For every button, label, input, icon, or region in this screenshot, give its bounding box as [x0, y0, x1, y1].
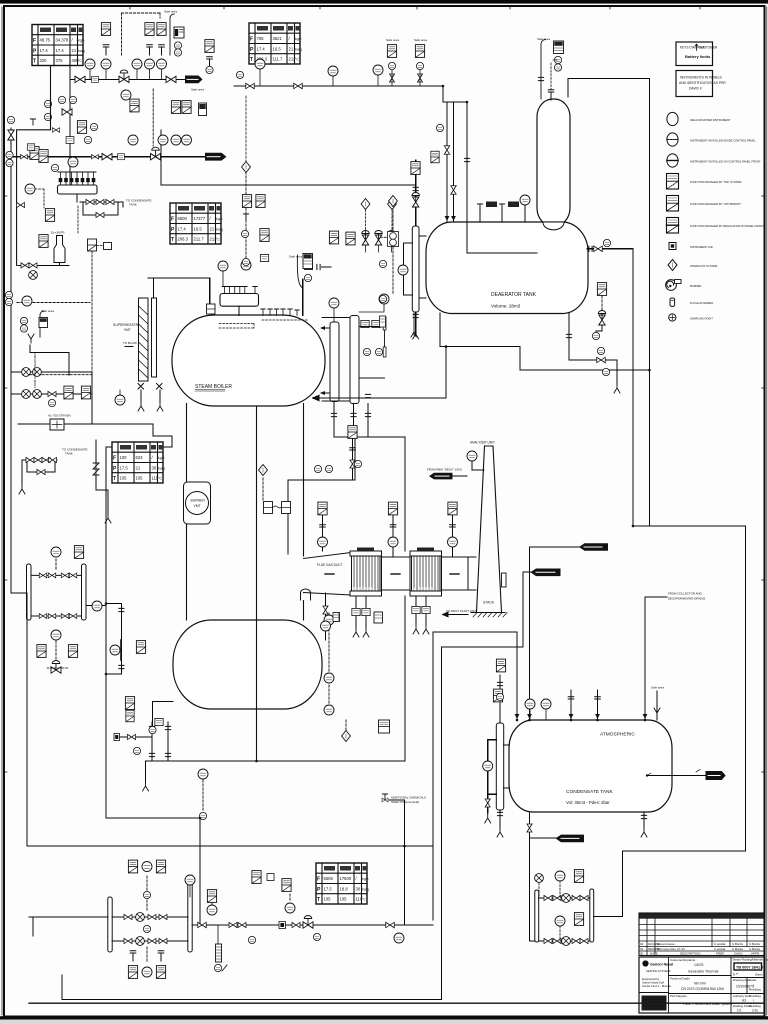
drum internal feed pipe (dashed) — [219, 324, 254, 329]
pipe: boiler feedwater inlet — [313, 347, 446, 398]
svg-text:17.4: 17.4 — [178, 226, 187, 231]
svg-text:F: F — [113, 456, 116, 462]
stack damper — [502, 573, 507, 587]
water treatment pumps 2x2 — [22, 368, 31, 377]
svg-text:barg: barg — [295, 47, 302, 51]
svg-text:Vol: 35m3 - Pdes: 2bar: Vol: 35m3 - Pdes: 2bar — [566, 800, 610, 805]
svg-text:100: 100 — [120, 455, 128, 460]
svg-text:00: 00 — [640, 952, 644, 956]
deaerator feed valves — [444, 146, 449, 155]
connector: sample header 2 — [531, 569, 561, 577]
pipe: header blowoff loop — [77, 194, 123, 215]
nozzle dome on wall — [301, 589, 311, 600]
pipe: manifold riser — [238, 306, 240, 315]
spray control cluster right of drum — [329, 231, 338, 244]
svg-text:Steam Routing/Material Doc.Num: Steam Routing/Material Doc.Number — [733, 958, 768, 962]
circles above line A — [85, 59, 95, 69]
steam drum (upper) — [172, 315, 325, 406]
svg-text:16.5: 16.5 — [194, 226, 203, 231]
svg-text:F: F — [171, 217, 174, 223]
condensate level bridle — [496, 723, 503, 810]
svg-text:barg: barg — [362, 887, 369, 891]
legend symbol: field mounted instrument — [667, 112, 731, 125]
pipe: sample labels stubs — [523, 547, 579, 720]
instruments above line B — [130, 99, 139, 112]
svg-text:T: T — [113, 476, 116, 482]
svg-text:BURNER: BURNER — [690, 284, 701, 288]
value table T3 — [170, 203, 223, 244]
pipe: bottom-left pump suction — [29, 917, 108, 936]
pipe: drum level column drains — [334, 402, 405, 762]
analyzer circle — [467, 451, 477, 461]
svg-text:CN 2473 GV30RM BW 12t/h: CN 2473 GV30RM BW 12t/h — [681, 987, 724, 991]
left mid circle chain — [198, 769, 208, 779]
instrument squares row top — [101, 23, 110, 36]
svg-text:105: 105 — [324, 897, 332, 902]
svg-text:APPR: APPR — [751, 952, 760, 956]
legend symbol: sampling point — [669, 314, 714, 321]
pipe: treated water line — [18, 424, 172, 447]
svg-text:AL-750 STRYBN: AL-750 STRYBN — [48, 414, 71, 418]
svg-text:TO PAINT PLANT 10KG: TO PAINT PLANT 10KG — [446, 609, 478, 613]
pipe: steam to deaerator — [234, 86, 537, 253]
svg-text:17.4: 17.4 — [56, 48, 65, 53]
svg-text:VMT: VMT — [194, 504, 201, 508]
misc cluster upper-left — [58, 96, 65, 103]
svg-text:first issue Rev. FL 03: first issue Rev. FL 03 — [657, 947, 685, 951]
drum top nozzles — [263, 309, 297, 316]
dashed: line F controller — [152, 89, 154, 146]
right duct — [442, 557, 469, 590]
connector: sample header 1 — [579, 543, 608, 551]
svg-text:375: 375 — [56, 58, 64, 63]
svg-text:48.75: 48.75 — [40, 38, 51, 43]
svg-text:Generator Thermal: Generator Thermal — [688, 970, 718, 974]
lower drum — [173, 620, 322, 709]
svg-text:STACK: STACK — [483, 601, 495, 605]
pipe: wall blowdown jog — [288, 437, 355, 554]
legend symbol: instrument inside control panel — [667, 133, 756, 146]
small marks near tank outlet — [647, 770, 700, 776]
svg-text:30: 30 — [356, 886, 361, 891]
svg-text:°C: °C — [78, 59, 82, 63]
project cells — [670, 958, 732, 1006]
ground hatch under stack — [471, 612, 505, 614]
svg-text:Garioni Naval: Garioni Naval — [650, 963, 673, 967]
dashed/dotted control + enclosure lines — [17, 13, 602, 963]
valves on line A — [75, 76, 85, 82]
flue sample drop — [323, 606, 328, 614]
svg-text:C.Bonfa: C.Bonfa — [732, 942, 743, 946]
legend symbol: burner — [666, 280, 702, 291]
circles on steam-to-deaerator line — [328, 66, 338, 76]
stack chimney — [477, 446, 502, 612]
legend symbol: instrument air — [669, 243, 713, 250]
svg-text:FIELD MOUNTED INSTRUMENT: FIELD MOUNTED INSTRUMENT — [690, 118, 731, 122]
svg-text:21: 21 — [289, 46, 294, 51]
deaerator column — [537, 99, 570, 226]
svg-text:ECONOMIZER: ECONOMIZER — [354, 587, 373, 591]
pipe: flue sample drop — [325, 593, 327, 640]
additional chemicals injector — [382, 794, 387, 800]
legend symbol: function managed by optisprint — [667, 196, 742, 212]
pipe: bottom-left drain items — [114, 722, 168, 761]
svg-text:30: 30 — [152, 465, 157, 470]
svg-text:kg/h: kg/h — [158, 456, 165, 460]
title block main — [639, 957, 764, 1013]
svg-text:Nm h/hr: Nm h/hr — [694, 982, 707, 986]
svg-text:CONDENSATE TANK: CONDENSATE TANK — [566, 789, 613, 795]
svg-text:Via del Cavo 1 - Brescia: Via del Cavo 1 - Brescia — [642, 984, 671, 988]
svg-text:320: 320 — [40, 58, 48, 63]
da drain Ys below tank — [413, 313, 415, 335]
value table T4 — [112, 442, 165, 483]
svg-text:ATMOSPHERIC: ATMOSPHERIC — [600, 732, 635, 738]
valves on line B — [102, 154, 112, 160]
pipe: drain line y265 — [18, 263, 69, 266]
svg-text:P&ID = Steam and water system: P&ID = Steam and water system — [683, 1002, 732, 1006]
controller chain under header — [25, 184, 35, 194]
extra left-edge fittings — [21, 154, 28, 158]
drum level gauge columns — [330, 322, 339, 402]
pipe: drain header branch — [106, 818, 200, 925]
circle on dotted line — [22, 296, 32, 306]
drawing number cells — [733, 958, 768, 1013]
valve station on x121 — [119, 608, 124, 611]
header valve stubs — [61, 172, 94, 185]
svg-text:PREP.: PREP. — [716, 952, 725, 956]
svg-text:705: 705 — [257, 36, 265, 41]
pipe: lower drum blowdown — [153, 701, 174, 726]
svg-text:CHKD: CHKD — [734, 952, 743, 956]
svg-text:17.4: 17.4 — [40, 48, 49, 53]
connector: steam users top — [185, 76, 203, 84]
pipe: left border riser — [10, 128, 12, 593]
deaerator level bridle — [412, 226, 419, 312]
top black bar — [0, 0, 768, 4]
psv box on drum top left — [207, 304, 216, 314]
connector: water pipe outlet — [706, 772, 725, 780]
pipe: drum psv discharge — [322, 266, 332, 268]
valves on header blowoff — [86, 199, 94, 204]
svg-text:INSTRUMENT INSTALLED INSIDE CO: INSTRUMENT INSTALLED INSIDE CONTROL PANE… — [690, 139, 756, 143]
legend symbol: function managed by regulator on panel front — [667, 218, 765, 234]
svg-text:105: 105 — [340, 897, 348, 902]
svg-text:F: F — [317, 877, 320, 883]
svg-text:INSTRUMENT INSTALLED ON CONTRO: INSTRUMENT INSTALLED ON CONTROL PANEL FR… — [690, 160, 761, 164]
svg-text:Customer/Impianto: Customer/Impianto — [670, 958, 696, 962]
svg-text:°C: °C — [216, 238, 220, 242]
svg-text:21: 21 — [210, 226, 215, 231]
svg-text:T: T — [171, 237, 174, 243]
psv square on dashed riser — [88, 239, 97, 251]
svg-text:BURNER: BURNER — [191, 499, 206, 503]
economizer 1 — [350, 548, 382, 597]
mid duct — [382, 557, 411, 590]
svg-text:barg: barg — [78, 49, 85, 53]
pipe: deaerator vent circuit — [568, 78, 649, 526]
heat exchanger tube valves — [39, 573, 47, 578]
svg-text:105: 105 — [136, 476, 144, 481]
svg-text:01: 01 — [640, 947, 644, 951]
superheater outlet valves — [138, 384, 162, 390]
svg-text:Battery limits: Battery limits — [685, 54, 711, 59]
svg-text:kg/h: kg/h — [362, 877, 369, 881]
pipe: deaerator bottom outlet loop — [440, 313, 649, 370]
dashed: furnace diamond chain — [263, 443, 353, 731]
dashed: bl pump instruments — [147, 876, 290, 963]
pipe: condensate tank feeds — [571, 597, 667, 720]
svg-text:Safe area: Safe area — [386, 38, 399, 42]
svg-text:TANK: TANK — [65, 452, 73, 456]
svg-text:FUNCTION MANAGED BY "OPTISPRIN: FUNCTION MANAGED BY "OPTISPRINT" — [690, 202, 741, 206]
svg-text:STEAM BOILER: STEAM BOILER — [195, 384, 232, 390]
pipe: feedwater line to deaerator bridle — [161, 130, 416, 226]
center downcomer pipe — [256, 406, 258, 761]
svg-text:Engineered by: Engineered by — [642, 977, 660, 981]
legend symbol: instrument on control panel front — [667, 154, 761, 167]
svg-text:barg: barg — [158, 466, 165, 470]
svg-text:°C: °C — [362, 898, 366, 902]
svg-text:Scale: Scale — [749, 978, 757, 982]
svg-text:21: 21 — [72, 48, 77, 53]
svg-text:Safe area: Safe area — [414, 38, 427, 42]
pipe: hx outlet — [86, 605, 106, 607]
svg-text:C.podda: C.podda — [714, 947, 726, 951]
svg-text:C.podda: C.podda — [714, 942, 726, 946]
label STEAM BOILER — [195, 384, 232, 391]
svg-text:1/1s: 1/1s — [752, 1009, 758, 1013]
svg-text:DATE: DATE — [650, 952, 658, 956]
pipe: to condensate tank small loop — [22, 460, 57, 485]
svg-text:Garioni Naval SpA: Garioni Naval SpA — [642, 981, 664, 985]
legend box: instruments in panels note — [676, 71, 726, 97]
deaerator left dashed chain — [389, 196, 398, 207]
svg-text:INJECTION(eventual): INJECTION(eventual) — [391, 800, 419, 804]
pipe: bridle drain — [415, 312, 417, 336]
svg-text:FUNCTION MANAGED BY REGULATOR: FUNCTION MANAGED BY REGULATOR ON PANEL F… — [690, 224, 764, 228]
pipe: duct sensor stems — [323, 516, 453, 557]
svg-text:16.5: 16.5 — [273, 46, 282, 51]
connector: from pbw deox — [427, 468, 463, 480]
svg-text:VMT: VMT — [124, 328, 131, 332]
dashed stub above diamond — [245, 96, 247, 161]
lower drum end instruments — [324, 615, 334, 625]
strainer on discharge — [216, 944, 222, 962]
pipe: deaerator small drain loop — [569, 313, 617, 384]
safe area box mid — [303, 254, 313, 269]
blowdown corner instruments — [149, 726, 156, 733]
border tick marks — [130, 6, 700, 9]
psv right discharging — [317, 264, 320, 269]
pipe: boiler feed discharge — [192, 924, 433, 926]
deaerator tank top sample points — [477, 204, 482, 210]
svg-text:0 **: 0 ** — [733, 973, 739, 977]
svg-text:111.7: 111.7 — [273, 57, 284, 62]
flue gas duct funnel — [304, 553, 352, 596]
svg-text:DAVID II: DAVID II — [689, 87, 702, 91]
svg-text:C.Bonfa: C.Bonfa — [732, 947, 743, 951]
revision table — [639, 913, 764, 956]
svg-text:FROM PBW "DEOX" 10KG: FROM PBW "DEOX" 10KG — [427, 468, 463, 472]
svg-text:barg: barg — [216, 227, 223, 231]
pipe: riser to header — [69, 65, 71, 185]
pipe: to paint plant arrow — [443, 612, 468, 616]
drum safety vent hook — [297, 255, 302, 288]
svg-text:TB 0007 3841 0: TB 0007 3841 0 — [736, 965, 763, 969]
svg-text:206.3: 206.3 — [178, 237, 189, 242]
svg-text:DESCRIPTION: DESCRIPTION — [680, 952, 701, 956]
pipe: safety valve leg — [96, 440, 108, 515]
dashed: upper-left safe area box — [122, 13, 161, 55]
pipe: left blowdown riser — [105, 447, 107, 818]
pipe: left small valve station — [106, 604, 121, 675]
svg-text:second issue: second issue — [657, 942, 675, 946]
pipe: blowdown main to drain header — [146, 761, 406, 782]
svg-text:17.4: 17.4 — [257, 46, 266, 51]
svg-text:FUNCTION MANAGED BY TK37 SYSTE: FUNCTION MANAGED BY TK37 SYSTEM — [690, 180, 742, 184]
dashed: hx controller — [55, 559, 57, 662]
svg-text:kg/h: kg/h — [295, 37, 302, 41]
svg-text:AND IDENTIFICATION AS PER: AND IDENTIFICATION AS PER — [679, 81, 726, 85]
bottom-left drain instruments — [114, 734, 120, 741]
svg-text:02: 02 — [640, 942, 644, 946]
svg-text:T: T — [250, 57, 253, 63]
svg-text:FLUSH ATOMIZER: FLUSH ATOMIZER — [690, 301, 713, 305]
pipe: sewage water branch — [530, 837, 557, 839]
svg-text:FROM COLLECTOR AND: FROM COLLECTOR AND — [668, 592, 702, 596]
svg-text:623: 623 — [136, 455, 144, 460]
value table T5 — [316, 863, 369, 904]
svg-text:AIR PREHEATER: AIR PREHEATER — [412, 587, 434, 591]
connector: steam line B — [205, 153, 227, 161]
hx control valve cluster — [37, 645, 46, 658]
bottom-left pump headers — [108, 897, 112, 952]
svg-text:°C: °C — [295, 58, 299, 62]
svg-text:T: T — [317, 897, 320, 903]
svg-text:FLUE GAS DUCT: FLUE GAS DUCT — [317, 563, 343, 567]
svg-text:P&I Diagram: P&I Diagram — [670, 994, 688, 998]
pipe: drum safety riser — [302, 279, 304, 316]
left border instruments — [6, 151, 13, 158]
svg-text:kg/h: kg/h — [216, 217, 223, 221]
svg-text:Drawing date: Drawing date — [733, 978, 750, 982]
svg-text:DEAERATOR TANK: DEAERATOR TANK — [491, 292, 537, 298]
vent with hook — [170, 14, 174, 55]
blowdown heat exchanger (left) — [27, 564, 87, 620]
svg-text:TO BLOW: TO BLOW — [123, 341, 137, 345]
bottom-right pump headers — [535, 890, 539, 942]
inner drawing frame bottom line — [29, 1002, 763, 1004]
svg-text:Safe area: Safe area — [191, 88, 204, 92]
svg-text:17.5: 17.5 — [324, 886, 333, 891]
pipe: steam line B — [11, 156, 205, 158]
svg-text:Res/Dwg: Res/Dwg — [749, 988, 761, 992]
svg-text:ANALYZER UNIT: ANALYZER UNIT — [470, 441, 495, 445]
pipe: deaerator top instrument stems — [480, 205, 525, 222]
pipe: bridle bypass loop — [404, 243, 413, 295]
pipe: vent line y352 — [30, 345, 69, 375]
svg-text:Safe area: Safe area — [651, 686, 664, 690]
svg-text:FROM WATER TREATMENT: FROM WATER TREATMENT — [33, 351, 37, 388]
pipe: condensate pump suction — [530, 813, 535, 941]
svg-text:34.378: 34.378 — [56, 38, 69, 43]
burner box — [184, 482, 211, 524]
pipe: deaerator outlet right — [587, 249, 746, 917]
drum level columns top instruments — [329, 298, 339, 308]
furnace walls — [187, 404, 304, 621]
svg-text:Res/Dwg: Res/Dwg — [749, 1004, 761, 1008]
svg-text:14075: 14075 — [694, 963, 704, 967]
svg-text:CUSTOMER: CUSTOMER — [699, 46, 718, 50]
economizer 2 / air preheater — [410, 548, 442, 597]
pipe: water inlet trains — [12, 372, 92, 424]
value table T1 — [32, 25, 85, 66]
svg-text:INSTRUMENT AIR: INSTRUMENT AIR — [690, 245, 713, 249]
pipe: superheater steam feed — [148, 278, 210, 304]
pipe: left drain collection — [11, 593, 433, 846]
pipe: eco drains — [356, 596, 426, 628]
pipe: condensate bridle top — [488, 675, 500, 828]
svg-text:1/1: 1/1 — [737, 1009, 742, 1013]
eco drains — [352, 608, 360, 615]
pipe: superheater drains — [141, 390, 160, 402]
svg-text:5506: 5506 — [324, 876, 334, 881]
value table T2 — [249, 23, 302, 64]
svg-text:211.7: 211.7 — [194, 237, 205, 242]
svg-text:kg/h: kg/h — [78, 39, 85, 43]
legend box: keys diagram / customer battery limits — [676, 42, 718, 66]
svg-text:SAMPLING POINT: SAMPLING POINT — [690, 317, 713, 321]
svg-text:Volume: 28m3: Volume: 28m3 — [491, 304, 521, 309]
deaerator column top vent — [541, 40, 546, 100]
svg-text:17.5: 17.5 — [120, 465, 129, 470]
discharge line fittings — [198, 922, 207, 927]
junction dots on major tees — [105, 85, 651, 848]
feed arrowheads into tanks — [445, 216, 648, 719]
svg-text:21: 21 — [136, 465, 141, 470]
dashed: tk37 enclosure — [17, 251, 94, 375]
legend symbol: function managed by TK37 system — [667, 174, 743, 190]
svg-text:SUPERHEATER: SUPERHEATER — [113, 323, 139, 327]
left boxes near line B — [30, 147, 39, 160]
extra cluster left of line A — [44, 100, 51, 107]
svg-text:F: F — [250, 37, 253, 43]
svg-text:HEATING SYSTEMS: HEATING SYSTEMS — [646, 969, 671, 973]
dashed: duct sensors — [323, 505, 453, 516]
pipe: furnace instrument drops — [352, 438, 354, 480]
deaerator tank — [426, 222, 588, 314]
logo cell — [642, 960, 674, 1010]
to condensate tank valves — [26, 457, 34, 462]
svg-text:3621: 3621 — [273, 36, 283, 41]
pipe: analyzer stem — [472, 461, 484, 470]
bottom black bar — [0, 1016, 768, 1019]
svg-text:Sheet: Sheet — [755, 973, 763, 977]
steam header manifold (upper-left) — [58, 185, 98, 194]
pipe: pump trains — [112, 917, 188, 941]
svg-text:DESUPERHEATER DRAINS: DESUPERHEATER DRAINS — [668, 597, 705, 601]
connector: sewage water — [556, 835, 585, 843]
svg-text:Res/Dwg: Res/Dwg — [749, 994, 761, 998]
svg-text:Perform/Grade: Perform/Grade — [670, 976, 690, 980]
pipe: from pbw line — [453, 475, 467, 477]
furnace cluster — [259, 465, 268, 476]
pipe: steam outlet line A — [70, 78, 185, 80]
pipe: sample coolers drop — [62, 572, 523, 1000]
svg-text:TANK: TANK — [129, 203, 137, 207]
instrument air box — [174, 27, 184, 38]
